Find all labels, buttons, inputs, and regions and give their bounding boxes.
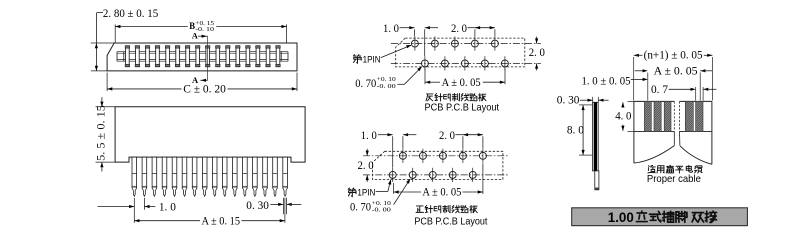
hole top row 5 xyxy=(491,40,498,47)
svg-text:-0. 00: -0. 00 xyxy=(372,206,392,213)
dimension 1.0 pin pitch xyxy=(98,206,135,208)
label first pin (lower view) xyxy=(348,188,356,197)
svg-text:PCB P.C.B Layout: PCB P.C.B Layout xyxy=(414,216,487,227)
svg-text:2. 0: 2. 0 xyxy=(439,128,455,142)
dimension A +/- 0.05 xyxy=(425,81,430,84)
svg-text:0. 30: 0. 30 xyxy=(557,92,580,106)
PCB layout (reverse): dashed board outline xyxy=(396,38,525,67)
cable torn bottom curves xyxy=(634,146,674,163)
hole top row 4 (lower view) xyxy=(459,152,466,159)
svg-text:(n+1) ± 0. 05: (n+1) ± 0. 05 xyxy=(644,48,703,62)
side view: pin 10 xyxy=(222,157,227,188)
caption: normal-pin PCB (CJK) xyxy=(416,206,423,212)
top view: pin contact 13 xyxy=(246,46,250,67)
svg-text:2. 0: 2. 0 xyxy=(358,158,374,172)
svg-text:A ± 0. 05: A ± 0. 05 xyxy=(422,185,461,199)
svg-text:8. 0: 8. 0 xyxy=(567,123,584,137)
side view: pin 16 xyxy=(283,157,288,188)
hole bottom row 1 (lower view) xyxy=(389,171,396,178)
svg-text:1. 0 ± 0. 05: 1. 0 ± 0. 05 xyxy=(582,73,631,87)
hole bottom row 2 xyxy=(441,60,448,67)
svg-text:0. 70: 0. 70 xyxy=(355,76,376,90)
hole top row 4 xyxy=(471,40,478,47)
svg-text:-0. 10: -0. 10 xyxy=(195,26,214,33)
cable break dashed edges xyxy=(673,101,675,131)
top view: strip left end notch xyxy=(116,52,118,62)
dimension A +/- 0.05 (cable) xyxy=(635,70,646,72)
side view: pin 12 xyxy=(243,157,248,188)
svg-text:0. 7: 0. 7 xyxy=(651,82,668,96)
top view: pin contact 5 xyxy=(166,46,170,67)
hole bottom row 3 xyxy=(461,60,468,67)
svg-text:5. 5 ± 0. 15: 5. 5 ± 0. 15 xyxy=(94,105,108,161)
row centerline bottom xyxy=(391,62,541,64)
top view: pin contact 14 xyxy=(256,46,260,67)
svg-text:1PIN: 1PIN xyxy=(363,54,381,64)
dimension (n+1) +/- 0.05 xyxy=(634,54,639,57)
dimension A +/- 0.15 xyxy=(134,220,200,222)
top view: pin contact 11 xyxy=(226,46,230,67)
side view: pin 11 xyxy=(233,157,238,188)
svg-text:A ± 0. 15: A ± 0. 15 xyxy=(202,213,241,227)
svg-text:A ± 0. 05: A ± 0. 05 xyxy=(654,63,698,77)
svg-text:-0. 00: -0. 00 xyxy=(377,83,397,90)
svg-text:1. 0: 1. 0 xyxy=(361,128,377,142)
top view: pin contact 4 xyxy=(156,46,160,67)
side view: pin 14 xyxy=(263,157,268,188)
hole bottom row 5 (lower view) xyxy=(469,171,476,178)
side view: pin 8 xyxy=(202,157,207,188)
top view: pin contact 7 xyxy=(186,46,190,67)
hole bottom row 1 xyxy=(421,60,428,67)
svg-text:1. 0: 1. 0 xyxy=(383,21,399,35)
svg-text:C ± 0. 20: C ± 0. 20 xyxy=(183,82,226,96)
top view: pin contact 1 xyxy=(126,46,130,67)
svg-text:PCB P.C.B Layout: PCB P.C.B Layout xyxy=(425,102,500,113)
hole top row 2 (lower view) xyxy=(419,152,426,159)
side view: pin 6 xyxy=(182,157,187,188)
dimension B +0.15/-0.10 xyxy=(115,26,188,28)
caption: reverse-pin PCB (CJK) xyxy=(426,94,433,101)
title box xyxy=(572,208,748,226)
top view: pin contact 12 xyxy=(236,46,240,67)
svg-text:A ± 0. 05: A ± 0. 05 xyxy=(442,75,481,89)
side view: pin 9 xyxy=(212,157,217,188)
hole bottom row 3 (lower view) xyxy=(429,171,436,178)
dimension A +/- 0.05 (lower view) xyxy=(394,190,399,193)
hole top row 3 xyxy=(451,40,458,47)
hole top row 1 (lower view) xyxy=(399,152,406,159)
hole top row 3 (lower view) xyxy=(439,152,446,159)
side view: pin 5 xyxy=(172,157,177,188)
side view: pin 4 xyxy=(162,157,167,188)
side view: pin 1 xyxy=(132,157,137,188)
side view: connector body outline xyxy=(115,107,305,162)
top view: connector body outline xyxy=(107,43,297,71)
svg-text:4. 0: 4. 0 xyxy=(615,108,631,122)
side view: pin 3 xyxy=(152,157,157,188)
top view: strip right end notch xyxy=(280,52,282,62)
top view: pin contact 10 xyxy=(216,46,220,67)
top view: pin contact 2 xyxy=(136,46,140,67)
row centerline bottom (lower view) xyxy=(363,174,509,176)
section line A-A xyxy=(207,36,209,80)
dimension 2.0 row spacing right xyxy=(536,37,538,44)
svg-text:1.00: 1.00 xyxy=(608,210,634,225)
label A bottom with arrow xyxy=(200,79,207,81)
svg-text:0. 30: 0. 30 xyxy=(246,198,269,212)
top view: pin contact 15 xyxy=(266,46,270,67)
top view: pin contact 3 xyxy=(146,46,150,67)
dimension 0.30 pin thickness xyxy=(270,203,283,205)
dimension C +/- 0.20 xyxy=(107,88,181,90)
top view: pin contact 8 xyxy=(196,46,200,67)
conductor bands (hatched) xyxy=(644,101,651,131)
row centerline top (lower view) xyxy=(363,155,509,157)
hole top row 1 xyxy=(411,40,418,47)
svg-text:Proper cable: Proper cable xyxy=(647,173,701,185)
top view: pin contact 9 xyxy=(206,46,210,67)
top view: pin contact 16 xyxy=(276,46,280,67)
flat cable edge view lower tail xyxy=(595,171,599,190)
hole bottom row 4 xyxy=(481,60,488,67)
svg-text:1. 0: 1. 0 xyxy=(159,200,176,214)
row centerline top xyxy=(391,43,541,45)
cable conductor area bottom line xyxy=(634,130,674,132)
hole top row 5 (lower view) xyxy=(479,152,486,159)
side view: pin 2 xyxy=(142,157,147,188)
side view: pin 7 xyxy=(192,157,197,188)
flat cable edge view body xyxy=(593,102,599,171)
hole bottom row 4 (lower view) xyxy=(449,171,456,178)
caption: proper flat cable (CJK) xyxy=(648,166,655,173)
flat cable front view outline xyxy=(634,100,674,102)
svg-text:2. 0: 2. 0 xyxy=(529,45,545,59)
top view: contact strip rails xyxy=(117,51,288,53)
svg-text:2. 80 ± 0. 15: 2. 80 ± 0. 15 xyxy=(103,6,158,20)
side view: pin 15 xyxy=(273,157,278,188)
hole bottom row 2 (lower view) xyxy=(409,171,416,178)
svg-text:0. 70: 0. 70 xyxy=(350,200,371,214)
hole bottom row 5 xyxy=(501,60,508,67)
top view: pin contact 6 xyxy=(176,46,180,67)
svg-text:1PIN: 1PIN xyxy=(357,188,375,198)
dimension 5.5 +/- 0.15 xyxy=(101,97,103,107)
svg-text:2. 0: 2. 0 xyxy=(451,21,467,35)
dimension 8.0 xyxy=(582,105,584,155)
cable break slit xyxy=(673,131,675,145)
hole top row 2 xyxy=(431,40,438,47)
label first pin (di-1-PIN) xyxy=(353,55,361,64)
side view: pin 13 xyxy=(253,157,258,188)
PCB layout (normal): dashed board outline xyxy=(372,151,503,179)
dimension 2.0 row spacing left xyxy=(366,149,368,156)
